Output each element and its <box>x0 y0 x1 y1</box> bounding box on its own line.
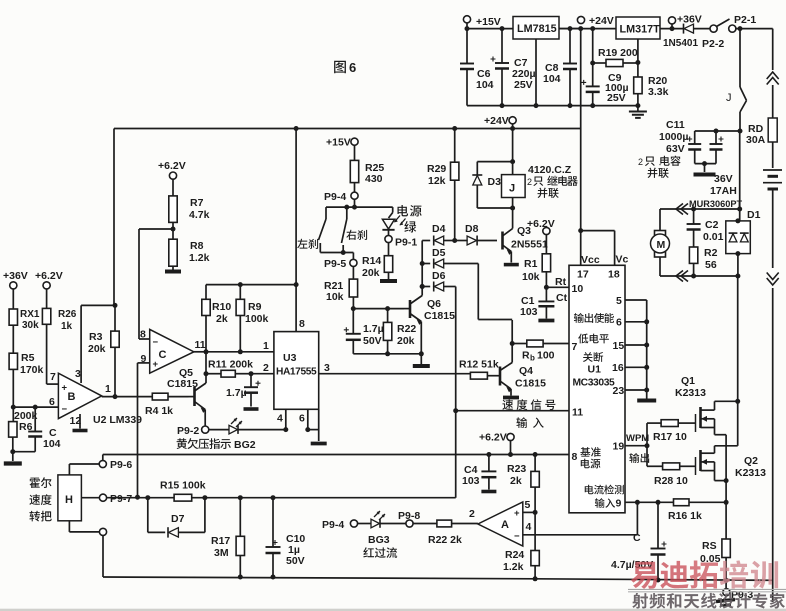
capacitor C8 <box>543 26 577 106</box>
node C11 branch <box>738 129 743 134</box>
wire U2B minus input <box>13 406 58 408</box>
op-amp U2B <box>49 368 111 427</box>
svg-text:Vc: Vc <box>616 254 629 266</box>
svg-text:104: 104 <box>543 73 561 85</box>
wire diode bus <box>421 241 423 288</box>
svg-text:103: 103 <box>520 306 538 318</box>
svg-text:4120.C.Z: 4120.C.Z <box>528 164 572 176</box>
svg-text:8: 8 <box>572 451 578 463</box>
wire Q6 base line <box>351 306 404 311</box>
svg-text:R22: R22 <box>397 323 416 335</box>
resistor RX1 <box>9 309 40 353</box>
capacitor C 104 <box>10 407 60 454</box>
svg-text:19: 19 <box>613 441 625 453</box>
svg-text:20k: 20k <box>397 335 415 347</box>
capacitor C10 <box>266 498 306 577</box>
wire drain rail <box>715 276 738 446</box>
wire +24V long rail <box>114 29 581 129</box>
svg-text:1.7µ: 1.7µ <box>226 387 247 399</box>
svg-text:D7: D7 <box>171 513 185 525</box>
terminal P9-8 <box>398 510 437 527</box>
svg-text:30A: 30A <box>746 134 766 146</box>
node motor top right <box>737 207 742 212</box>
svg-text:10k: 10k <box>326 291 344 303</box>
svg-text:6: 6 <box>616 317 622 329</box>
label speed signal 速度信号输入 <box>502 399 555 428</box>
resistor R14 <box>362 255 393 279</box>
wire relay column <box>512 129 514 175</box>
diode 1N5401 <box>663 24 711 49</box>
svg-text:+: + <box>514 508 520 519</box>
ground C4 <box>481 490 496 494</box>
label U2 LM339 <box>93 414 142 426</box>
op-amp A <box>478 499 532 546</box>
svg-text:RX1: RX1 <box>20 309 40 320</box>
svg-text:D5: D5 <box>432 247 446 259</box>
svg-text:7: 7 <box>50 371 56 383</box>
svg-text:C: C <box>633 532 641 544</box>
chevron motor bottom <box>676 271 688 282</box>
svg-text:1k: 1k <box>61 321 73 332</box>
svg-text:430: 430 <box>365 173 383 185</box>
wire C11 top link <box>695 130 740 132</box>
terminal +15V brake <box>326 137 358 161</box>
node C47 top <box>656 500 661 505</box>
svg-text:D6: D6 <box>432 270 446 282</box>
wire R7R8 to U2C minus <box>139 229 173 339</box>
svg-text:R9: R9 <box>248 301 262 313</box>
watermark underline <box>628 588 786 590</box>
svg-text:4.7k: 4.7k <box>189 209 210 221</box>
svg-text:2N5551: 2N5551 <box>511 239 548 251</box>
node C7 top <box>500 26 505 31</box>
wire hall bottom <box>69 521 100 532</box>
node speed pin11 <box>453 408 458 413</box>
terminal P2-2 <box>702 25 724 50</box>
resistor RS 0.05 <box>700 539 730 580</box>
wire J column to motor line <box>739 131 741 209</box>
node source R16 <box>724 500 729 505</box>
svg-text:R10: R10 <box>212 301 231 313</box>
wire gate splitter <box>647 423 663 466</box>
switch left brake 左刹 <box>297 207 353 252</box>
resistor R3 <box>88 129 119 397</box>
wire P9-6 riser 6.2V line <box>103 455 569 462</box>
capacitor C6 <box>460 29 494 106</box>
svg-text:LM317T: LM317T <box>620 24 661 36</box>
wire +15V input rail <box>467 22 581 29</box>
terminal +6.2V ref <box>479 432 514 458</box>
svg-text:11: 11 <box>572 407 583 419</box>
hall throttle box H <box>29 475 81 522</box>
wire fuse to battery <box>772 142 774 168</box>
svg-text:R23: R23 <box>507 463 526 475</box>
svg-text:3: 3 <box>75 368 81 380</box>
svg-text:P9-7: P9-7 <box>110 493 132 505</box>
terminal +24V <box>577 15 613 27</box>
svg-text:+6.2V: +6.2V <box>479 432 507 444</box>
svg-text:R19 200: R19 200 <box>598 47 638 59</box>
svg-text:C: C <box>159 349 167 361</box>
svg-text:b: b <box>530 354 535 363</box>
terminal P9-7 <box>99 493 132 505</box>
svg-text:BG2: BG2 <box>234 439 256 451</box>
node motor bottom right <box>735 274 740 279</box>
ground R8 <box>165 270 181 274</box>
node R19 left <box>590 61 595 66</box>
svg-text:25V: 25V <box>607 92 626 104</box>
svg-text:1N5401: 1N5401 <box>663 38 698 49</box>
resistor R7 divider <box>158 160 210 239</box>
wire U3 pin8 supply <box>294 126 305 332</box>
svg-text:K2313: K2313 <box>675 387 706 399</box>
svg-text:1: 1 <box>263 340 269 352</box>
svg-text:C1815: C1815 <box>424 310 455 322</box>
svg-text:R28 10: R28 10 <box>654 475 688 487</box>
ground Q6 <box>413 354 430 366</box>
svg-text:−: − <box>514 531 520 542</box>
wire U2C output <box>194 351 206 353</box>
wire U1 pin10 <box>546 276 569 304</box>
svg-text:J: J <box>726 92 732 104</box>
svg-text:103: 103 <box>462 475 480 487</box>
svg-text:Ct: Ct <box>556 292 568 304</box>
wire Q4 collector up <box>511 320 513 344</box>
resistor Rb 100 <box>512 340 569 362</box>
terminal hall bottom <box>99 528 106 535</box>
wire D6 to speed column <box>455 287 457 411</box>
svg-text:1.2k: 1.2k <box>189 252 210 264</box>
switch J main <box>726 29 747 131</box>
svg-text:100: 100 <box>537 350 555 362</box>
wire LM7815 output <box>559 28 581 30</box>
watermark gray 射频和天线设计专家 <box>632 593 785 609</box>
ground power section <box>629 106 647 118</box>
capacitor 1.7u U3 <box>226 374 261 407</box>
terminal P9-6 <box>99 459 132 471</box>
svg-text:9: 9 <box>616 498 622 510</box>
resistor R12 51k <box>459 359 499 380</box>
resistor R22 20k <box>383 309 416 357</box>
node D3 branch <box>510 159 515 164</box>
node Rt Ct <box>544 285 549 290</box>
wire U1 pin19 WPM <box>625 433 650 463</box>
IC U1 MC33035 <box>569 254 629 513</box>
svg-text:R16 1k: R16 1k <box>668 510 702 522</box>
svg-text:Rt: Rt <box>555 276 567 288</box>
svg-text:Q4: Q4 <box>519 365 533 377</box>
ground C1 <box>538 319 554 323</box>
node +24V <box>578 26 583 31</box>
wire R10 R9 top rail <box>206 282 296 287</box>
svg-text:P9-1: P9-1 <box>395 237 417 249</box>
node Q4 collector <box>510 341 515 346</box>
svg-text:P9-2: P9-2 <box>177 425 199 437</box>
svg-text:36V: 36V <box>714 173 733 185</box>
node R11 left <box>204 371 209 376</box>
wire LM7815 gnd pin <box>535 39 537 106</box>
svg-text:2: 2 <box>469 508 475 520</box>
wire motor top line <box>660 207 740 212</box>
svg-text:3: 3 <box>324 362 330 374</box>
wire D1 bottom to motor line <box>737 254 739 276</box>
ground U3 <box>311 442 327 446</box>
ground Q4 <box>503 396 519 400</box>
wire U3 pin1 <box>206 340 274 352</box>
svg-text:Q2: Q2 <box>744 455 758 467</box>
svg-text:Vcc: Vcc <box>581 254 600 266</box>
terminal P9-2 <box>177 425 209 437</box>
regulator U LM7815 <box>513 17 559 40</box>
svg-text:C1815: C1815 <box>515 378 546 390</box>
chevron up right rail <box>767 72 779 85</box>
svg-text:+6.2V: +6.2V <box>158 160 186 172</box>
op-amp U2C <box>140 329 206 374</box>
resistor R19 <box>593 47 638 67</box>
resistor R15 100k <box>160 480 456 502</box>
svg-text:R15 100k: R15 100k <box>160 480 206 492</box>
ground 1.7u U3 <box>244 407 259 411</box>
svg-text:R17 10: R17 10 <box>653 431 687 443</box>
ground C11 <box>694 173 716 177</box>
wire power section bottom rail <box>467 103 640 108</box>
diode D5 <box>422 247 478 269</box>
svg-text:6: 6 <box>349 60 356 75</box>
svg-text:15: 15 <box>613 340 625 352</box>
node D4 D8 junction <box>452 238 457 243</box>
node Q1 drain rail <box>735 399 740 404</box>
svg-text:U1: U1 <box>588 364 602 376</box>
terminal P9-5 <box>324 253 357 271</box>
resistor R4 <box>145 393 189 417</box>
svg-text:J: J <box>509 183 515 195</box>
svg-text:Q6: Q6 <box>427 298 441 310</box>
LED power green 电源绿 <box>382 205 421 236</box>
chevron down right rail <box>767 273 779 286</box>
wire U2B pin3 vcc <box>81 305 115 383</box>
terminal +15V <box>463 16 500 28</box>
resistor R1 <box>522 254 551 287</box>
svg-text:5: 5 <box>616 295 622 307</box>
wire U1 pin23 <box>625 388 649 393</box>
svg-text:+24V: +24V <box>484 115 509 127</box>
node R9 bottom <box>238 349 243 354</box>
svg-text:8: 8 <box>140 329 146 341</box>
resistor R23 <box>507 452 539 512</box>
wire battery to bottom <box>772 189 774 268</box>
capacitor C4 <box>462 452 496 490</box>
svg-text:1000µ: 1000µ <box>659 131 688 143</box>
svg-text:12k: 12k <box>428 175 446 187</box>
terminal P9-4 brake <box>324 191 358 207</box>
node R7 R8 <box>171 227 176 232</box>
transistor Q3 2N5551 <box>503 208 548 263</box>
ground R6 C <box>4 452 22 464</box>
svg-text:A: A <box>501 519 509 531</box>
svg-text:R14: R14 <box>362 255 381 267</box>
svg-text:R29: R29 <box>427 163 446 175</box>
svg-text:2k: 2k <box>510 475 522 487</box>
svg-text:BG3: BG3 <box>368 534 390 546</box>
svg-text:23: 23 <box>613 385 625 397</box>
regulator U LM317T <box>616 17 660 39</box>
svg-text:B: B <box>68 391 76 403</box>
LED BG2 <box>208 418 286 434</box>
node R10 bottom <box>204 349 209 354</box>
diode D7 loop <box>148 498 205 538</box>
svg-text:2: 2 <box>263 362 269 374</box>
chevron motor top <box>676 204 688 215</box>
terminal P9-1 <box>385 235 417 255</box>
resistor R5 <box>9 352 43 407</box>
wire hall top to P9-6 <box>69 464 100 475</box>
svg-text:D4: D4 <box>432 223 446 235</box>
resistor R28 10 gate <box>654 463 694 487</box>
terminal +6.2V left <box>35 270 63 308</box>
svg-text:6: 6 <box>299 413 305 425</box>
svg-text:WPM: WPM <box>626 433 649 444</box>
svg-text:P9-4: P9-4 <box>322 519 344 531</box>
resistor R17 10 gate <box>653 420 694 443</box>
wire U1 pin16 <box>625 365 649 370</box>
capacitor C11 pair <box>638 119 724 178</box>
svg-text:+15V: +15V <box>476 16 501 28</box>
bottom scan edge <box>0 609 786 611</box>
resistor R25 <box>350 160 384 192</box>
svg-text:0.01: 0.01 <box>703 231 724 243</box>
svg-text:17AH: 17AH <box>710 185 737 197</box>
svg-text:R17: R17 <box>211 535 230 547</box>
terminal P2-1 <box>729 14 757 32</box>
resistor R26 <box>42 308 76 384</box>
node C10 top <box>271 495 276 500</box>
node D6 bus <box>420 284 425 289</box>
svg-text:2: 2 <box>638 157 643 167</box>
resistor R29 <box>427 126 459 241</box>
svg-text:RS: RS <box>702 540 717 552</box>
svg-text:P2-1: P2-1 <box>734 14 756 26</box>
resistor R17 3M <box>211 498 245 577</box>
svg-text:C1815: C1815 <box>167 378 198 390</box>
terminal +36V <box>668 14 701 32</box>
svg-text:16: 16 <box>612 362 624 374</box>
relay J coil <box>502 175 526 208</box>
svg-text:R8: R8 <box>190 240 204 252</box>
ground R14 <box>380 279 397 283</box>
svg-text:50V: 50V <box>286 555 305 567</box>
transistor Q5 C1815 <box>167 367 206 427</box>
svg-text:30k: 30k <box>22 320 39 331</box>
capacitor C2 <box>687 209 724 247</box>
svg-text:+36V: +36V <box>3 270 28 282</box>
svg-text:LM7815: LM7815 <box>517 23 557 35</box>
node D5 bus <box>420 261 425 266</box>
svg-text:2k: 2k <box>216 313 228 325</box>
resistor R10 <box>202 285 232 352</box>
svg-text:P9-4: P9-4 <box>324 191 346 203</box>
wire Vcc Vc feed <box>578 129 614 266</box>
wire U3 pin2 <box>251 362 274 374</box>
label relay 4120.C.Z <box>527 164 578 198</box>
ground Q3 emitter <box>504 263 519 267</box>
wire U3 pin6 <box>299 409 310 432</box>
svg-text:R11 200k: R11 200k <box>208 359 253 371</box>
svg-text:4: 4 <box>277 413 283 425</box>
motor M <box>651 209 670 276</box>
label undervoltage 黄欠压指示BG2 <box>177 438 256 451</box>
wire U3 pin4 <box>277 409 288 432</box>
capacitor 1.7u 50V brake <box>344 309 384 354</box>
wire source column <box>724 435 729 539</box>
resistor R2 <box>689 247 717 276</box>
node Q6 collector bus <box>420 284 425 289</box>
node Q3 collector <box>510 206 515 211</box>
wire bottom rail <box>533 576 773 583</box>
node U2B output <box>113 394 118 399</box>
diode D8 <box>455 223 497 246</box>
svg-text:4: 4 <box>526 521 532 533</box>
svg-text:11: 11 <box>195 339 206 351</box>
LED BG3 <box>363 511 406 558</box>
svg-text:7: 7 <box>572 341 578 353</box>
svg-text:+6.2V: +6.2V <box>527 218 555 230</box>
terminal +6.2V Rt <box>527 218 555 254</box>
wire opamp pin4 line <box>523 502 638 535</box>
svg-text:25V: 25V <box>514 79 533 91</box>
svg-text:170k: 170k <box>20 364 44 376</box>
battery 36V 17AH <box>710 170 782 197</box>
watermark red 易迪拓培训 <box>631 560 778 589</box>
svg-text:K2313: K2313 <box>735 467 766 479</box>
resistor R9 <box>236 285 268 352</box>
wire U1 pin15 <box>625 343 649 348</box>
svg-text:R26: R26 <box>58 309 77 320</box>
svg-text:U2 LM339: U2 LM339 <box>93 414 142 426</box>
wire U2B plus input <box>47 383 59 385</box>
wire right rail upper <box>772 85 774 118</box>
ground U1 pins <box>637 390 656 401</box>
node R19 branch <box>590 26 595 31</box>
wire U1 pin5 <box>625 300 647 390</box>
wire Q6 emitter rail <box>353 353 421 355</box>
diode D4 <box>422 223 455 246</box>
svg-text:C2: C2 <box>705 219 719 231</box>
svg-text:MUR3060PT: MUR3060PT <box>689 199 742 209</box>
capacitor C 4.7u50V <box>611 502 667 580</box>
wire LM317T adj <box>637 39 639 77</box>
resistor R8 <box>169 239 210 269</box>
wire right rail lower <box>772 288 774 602</box>
svg-text:50V: 50V <box>363 335 382 347</box>
terminal P9-4 lower <box>322 519 371 531</box>
svg-text:8: 8 <box>299 318 305 330</box>
svg-text:2: 2 <box>527 177 532 187</box>
svg-text:R1: R1 <box>524 258 538 270</box>
svg-text:18: 18 <box>608 269 620 281</box>
svg-text:20k: 20k <box>88 343 106 355</box>
svg-text:6: 6 <box>49 396 55 408</box>
terminal P9-3 <box>716 580 753 605</box>
transistor Q1 K2313 mosfet <box>675 375 738 435</box>
terminal +24V mid <box>484 115 516 129</box>
svg-text:56: 56 <box>705 259 717 271</box>
wire R19/C9 column <box>592 29 594 63</box>
wire LM317T out to diode <box>660 28 683 30</box>
svg-text:R2: R2 <box>704 247 718 259</box>
svg-text:Q1: Q1 <box>681 375 695 387</box>
svg-text:R3: R3 <box>89 331 103 343</box>
svg-text:5: 5 <box>525 499 531 511</box>
